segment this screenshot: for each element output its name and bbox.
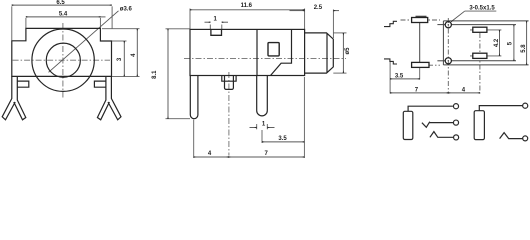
svg-text:11.6: 11.6 bbox=[241, 3, 253, 9]
svg-text:7: 7 bbox=[265, 151, 269, 157]
svg-text:3.5: 3.5 bbox=[395, 74, 404, 80]
svg-text:4: 4 bbox=[208, 151, 212, 157]
svg-text:8.1: 8.1 bbox=[152, 70, 158, 79]
svg-text:5: 5 bbox=[507, 41, 513, 45]
svg-text:3: 3 bbox=[117, 57, 123, 61]
svg-text:3-0.5x1.5: 3-0.5x1.5 bbox=[469, 5, 495, 11]
svg-text:ø5: ø5 bbox=[345, 47, 351, 55]
svg-text:5.8: 5.8 bbox=[521, 44, 527, 53]
svg-text:4: 4 bbox=[131, 53, 137, 57]
svg-text:6.5: 6.5 bbox=[56, 0, 65, 6]
svg-text:2.5: 2.5 bbox=[314, 5, 323, 11]
svg-text:5.4: 5.4 bbox=[59, 12, 68, 18]
svg-text:4.2: 4.2 bbox=[494, 38, 500, 47]
svg-text:ø3.6: ø3.6 bbox=[120, 7, 133, 13]
svg-text:3.5: 3.5 bbox=[278, 136, 287, 142]
svg-text:1: 1 bbox=[214, 17, 218, 23]
svg-text:1: 1 bbox=[262, 121, 266, 127]
